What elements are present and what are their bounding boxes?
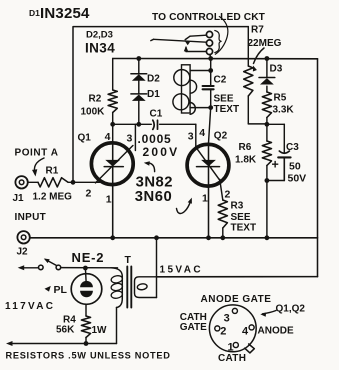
svg-text:+: + xyxy=(272,158,279,172)
arrow Q1,Q2 to pin diagram xyxy=(260,311,276,317)
wire relay common to node xyxy=(209,54,212,58)
resistor R7 wire xyxy=(247,27,249,124)
svg-text:15VAC: 15VAC xyxy=(160,265,204,276)
svg-text:RESISTORS .5W UNLESS NOTED: RESISTORS .5W UNLESS NOTED xyxy=(6,351,171,361)
transistor Q1 (SCS) body xyxy=(91,143,133,185)
wire C3 branch bottom xyxy=(267,157,284,180)
resistor R3 xyxy=(218,200,227,228)
switch blade xyxy=(44,259,57,266)
svg-text:1.8K: 1.8K xyxy=(235,155,257,166)
wire Q2 pin 3 lead xyxy=(195,124,197,146)
svg-text:3: 3 xyxy=(188,131,194,143)
junction bus / transformer drop xyxy=(154,235,159,240)
wire 117VAC line lead with arrow xyxy=(18,265,39,270)
pin diagram pin 4 label xyxy=(242,325,249,337)
svg-text:TEXT: TEXT xyxy=(231,223,257,234)
svg-text:R5: R5 xyxy=(274,93,287,104)
svg-text:ANODE GATE: ANODE GATE xyxy=(201,294,272,305)
svg-text:2: 2 xyxy=(220,325,226,337)
transistor Q1 cathode bar xyxy=(104,166,123,168)
wire gate coupling line xyxy=(113,123,196,125)
label T xyxy=(125,254,132,266)
junction R5-R6-R7-C3 node xyxy=(265,122,270,127)
label C3 xyxy=(286,142,299,153)
label ANODE xyxy=(258,325,294,336)
junction gate line / D1 branch xyxy=(136,122,141,127)
capacitor C2 xyxy=(203,86,214,89)
svg-text:50: 50 xyxy=(289,161,301,173)
svg-text:Q1: Q1 xyxy=(78,133,92,144)
label TO CONTROLLED CKT xyxy=(152,12,266,23)
transistor Q2 anode-cathode axis xyxy=(208,143,210,238)
label R4 value 1W xyxy=(92,325,108,336)
svg-text:Q1,Q2: Q1,Q2 xyxy=(276,304,306,315)
wire R1 to Q1 pin 2 xyxy=(68,181,100,183)
label R7 22MEG xyxy=(248,25,282,50)
svg-text:1W: 1W xyxy=(92,325,108,336)
svg-text:1: 1 xyxy=(228,342,234,354)
wire top border rail xyxy=(73,27,248,183)
resistor R6 xyxy=(262,141,271,166)
label J2 xyxy=(17,247,29,258)
label C3 polarity + xyxy=(272,158,279,172)
pin diagram index tab xyxy=(245,344,255,353)
transformer T primary exit xyxy=(117,299,123,308)
leader curve from TO CONTROLLED CKT xyxy=(215,17,228,55)
svg-text:INPUT: INPUT xyxy=(15,212,47,223)
wire relay top lead with arrow xyxy=(184,35,206,45)
label R4 xyxy=(63,315,76,326)
wire bottom to transformer primary xyxy=(116,308,118,344)
junction bus / Q2 cathode xyxy=(206,235,211,240)
junction gate line / R2-Q1 pin4 xyxy=(110,122,115,127)
svg-text:3: 3 xyxy=(224,313,230,325)
pin diagram pin 1 circle xyxy=(233,342,238,347)
switch terminal right xyxy=(56,265,61,270)
svg-text:ANODE: ANODE xyxy=(258,325,294,336)
resistor R2 xyxy=(108,90,117,113)
pin diagram pin 3 circle xyxy=(232,308,237,313)
svg-text:4: 4 xyxy=(199,127,205,139)
svg-text:Q2: Q2 xyxy=(214,131,228,142)
label Q1 pin 2 xyxy=(86,188,92,200)
switch terminal left xyxy=(39,265,44,270)
label R2 100K xyxy=(81,94,106,118)
label J1 xyxy=(13,193,25,204)
transistor Q1 anode-cathode axis xyxy=(112,142,114,238)
svg-text:50V: 50V xyxy=(288,173,307,185)
label D2 xyxy=(147,74,160,85)
svg-text:IN3254: IN3254 xyxy=(40,5,90,22)
junction C2 column / assembly top xyxy=(208,68,213,73)
svg-text:C3: C3 xyxy=(286,142,299,153)
transformer T core xyxy=(127,267,131,308)
svg-text:PL: PL xyxy=(54,284,68,296)
svg-text:C1: C1 xyxy=(150,109,163,120)
wire 117VAC bottom lead with arrow xyxy=(6,341,117,346)
arrow 3N60 to Q2 xyxy=(177,198,192,214)
capacitor C1 xyxy=(153,120,158,129)
wire C3 branch top xyxy=(267,124,284,152)
label R6 1.8K xyxy=(235,142,257,166)
transformer T primary loop 1 xyxy=(111,275,123,284)
label 3N60 xyxy=(135,189,172,205)
relay contact middle terminal xyxy=(206,40,212,46)
wire main top rail xyxy=(113,58,318,60)
lamp-photocell left lamp 2 xyxy=(173,94,189,110)
label Q1,Q2 xyxy=(276,304,306,315)
svg-text:3N60: 3N60 xyxy=(135,189,172,205)
wire R6 stem xyxy=(266,124,268,180)
diode D2 xyxy=(131,74,147,81)
relay contact top terminal xyxy=(206,31,212,37)
jack J1 xyxy=(15,176,27,188)
transformer T primary entry xyxy=(111,268,122,277)
wire Q1 pin 4 lead xyxy=(112,124,114,142)
pin diagram pin 1 label xyxy=(228,342,234,354)
svg-text:SEE: SEE xyxy=(231,212,251,223)
wire switch to lamp to transformer xyxy=(61,267,118,269)
lamp PL top lead xyxy=(84,268,87,284)
svg-text:3.3K: 3.3K xyxy=(273,105,295,116)
resistor R7 xyxy=(244,66,253,96)
svg-text:R3: R3 xyxy=(231,201,244,212)
relay blade wire xyxy=(151,39,207,42)
diode D3 xyxy=(259,78,275,85)
relay contact bottom terminal xyxy=(206,48,212,54)
svg-text:TEXT: TEXT xyxy=(214,104,240,115)
transistor Q1 triangle xyxy=(105,160,120,167)
arrow 3N82 to Q1 xyxy=(144,161,155,171)
label Q2 pin 3 xyxy=(188,131,194,143)
wire assembly bottom lead xyxy=(190,107,211,109)
label Q1 pin 4 xyxy=(105,131,111,143)
wire J1 to R1 xyxy=(28,181,38,183)
wire anode node to bus xyxy=(266,181,268,238)
relay contacts brace xyxy=(215,31,221,53)
lamp-photocell right bump 2 xyxy=(190,102,195,114)
label Q2 pin 2 xyxy=(225,189,231,201)
svg-text:200V: 200V xyxy=(143,145,180,159)
svg-text:2: 2 xyxy=(86,188,92,200)
junction point A node xyxy=(71,180,76,185)
wire D2-D1 branch xyxy=(138,59,140,125)
diode D1 xyxy=(131,94,147,101)
svg-text:POINT A: POINT A xyxy=(15,148,59,159)
label R5 3.3K xyxy=(273,93,295,116)
wire R2 stem xyxy=(112,59,114,125)
svg-text:1: 1 xyxy=(106,194,112,206)
junction lamp top xyxy=(83,266,88,271)
label PL xyxy=(54,284,68,296)
junction R6-C3 bottom node xyxy=(265,178,270,183)
wire R7 bottom to node xyxy=(248,123,267,125)
label C2 SEE TEXT xyxy=(214,75,240,116)
label 3N82 xyxy=(136,175,173,191)
label D2,D3 IN34 xyxy=(85,30,115,56)
label 15VAC xyxy=(160,265,204,276)
transformer T primary loop 2 xyxy=(111,283,123,292)
wire R4 bottom xyxy=(85,338,87,344)
label Q2 xyxy=(214,131,228,142)
wire C2 column lower xyxy=(210,89,212,107)
svg-text:D1: D1 xyxy=(147,89,160,100)
junction main rail / D3-R5 branch xyxy=(265,56,270,61)
label 117VAC xyxy=(5,301,55,312)
wire assembly top lead xyxy=(190,70,211,72)
label C3 value 50 50V xyxy=(288,161,307,185)
label INPUT xyxy=(15,212,47,223)
svg-text:1.2 MEG: 1.2 MEG xyxy=(33,192,73,203)
label RESISTORS .5W UNLESS NOTED xyxy=(6,351,171,361)
label R1 value 1.2 MEG xyxy=(33,192,73,203)
lamp-photocell assembly enclosure xyxy=(182,65,191,113)
svg-text:C2: C2 xyxy=(214,75,227,86)
svg-text:R6: R6 xyxy=(239,142,252,153)
svg-text:117VAC: 117VAC xyxy=(5,301,55,312)
capacitor C3 curved plate xyxy=(279,151,289,153)
resistor R5 xyxy=(262,92,271,118)
label Q1 pin 1 xyxy=(106,194,112,206)
capacitor C3 straight plate xyxy=(278,156,290,158)
label R1 xyxy=(46,166,59,177)
label Q1 pin 3 xyxy=(127,133,133,145)
junction R4 / bottom wire xyxy=(84,341,89,346)
junction bus / R3 xyxy=(220,235,225,240)
transformer T primary spine xyxy=(121,276,123,299)
label C1 value .0005 200V xyxy=(138,132,180,159)
svg-text:4: 4 xyxy=(105,131,111,143)
lamp-photocell right bump 1 xyxy=(190,80,197,93)
label D3 xyxy=(270,64,283,75)
transistor Q1 gate diagonal xyxy=(96,146,133,183)
svg-text:CATH: CATH xyxy=(218,353,246,364)
arrow POINT A to node xyxy=(32,158,44,177)
svg-text:J1: J1 xyxy=(13,193,25,204)
svg-text:T: T xyxy=(125,254,132,266)
svg-text:SEE: SEE xyxy=(214,94,234,105)
label NE-2 xyxy=(72,250,105,265)
wire 15VAC line xyxy=(157,276,318,278)
jack J2 xyxy=(17,231,29,243)
label C1 xyxy=(150,109,163,120)
label ANODE GATE xyxy=(201,294,272,305)
svg-text:4: 4 xyxy=(242,325,249,337)
label CATH bottom xyxy=(218,353,246,364)
arrow pointing to R7 xyxy=(253,48,264,72)
svg-text:2: 2 xyxy=(225,189,231,201)
junction bus / anode branch xyxy=(265,235,270,240)
transistor Q2 (SCS) body xyxy=(187,144,229,186)
label R3 SEE TEXT xyxy=(231,201,257,234)
junction main rail / D2-D1 branch xyxy=(136,56,141,61)
wire Q2 pin 4 lead xyxy=(209,108,211,143)
svg-text:IN34: IN34 xyxy=(85,41,115,56)
lamp PL lower electrode xyxy=(80,291,93,297)
transistor Q2 triangle xyxy=(201,160,216,167)
pin diagram case outline xyxy=(209,305,256,352)
svg-text:D2,D3: D2,D3 xyxy=(86,30,113,41)
svg-text:NE-2: NE-2 xyxy=(72,250,105,265)
label D1 xyxy=(147,89,160,100)
svg-text:GATE: GATE xyxy=(180,322,207,333)
lamp-photocell left lamp 1 xyxy=(174,70,190,86)
svg-text:R7: R7 xyxy=(251,25,264,36)
pin diagram pin 2 label xyxy=(220,325,226,337)
label CATH GATE xyxy=(180,312,207,333)
label Q2 pin 1 xyxy=(202,193,208,205)
wire transformer secondary to bus xyxy=(156,238,158,298)
lamp PL (NE-2) envelope xyxy=(71,274,102,305)
wire Q2 pin 2 lead xyxy=(220,179,223,200)
label POINT A xyxy=(15,148,59,159)
wire right rail 15VAC xyxy=(317,59,319,277)
svg-text:R1: R1 xyxy=(46,166,59,177)
label Q1 xyxy=(78,133,92,144)
svg-text:J2: J2 xyxy=(17,247,29,258)
junction C2 column / assembly bottom xyxy=(208,105,213,110)
label Q2 pin 4 xyxy=(199,127,205,139)
svg-text:1: 1 xyxy=(202,193,208,205)
transistor Q2 gate diagonal xyxy=(196,147,221,181)
svg-text:56K: 56K xyxy=(56,325,75,336)
svg-text:D3: D3 xyxy=(270,64,283,75)
resistor R4 xyxy=(81,316,90,338)
svg-text:22MEG: 22MEG xyxy=(248,38,282,49)
wire D3-R5 branch xyxy=(266,59,268,125)
label D1 IN3254 xyxy=(29,5,90,22)
wire cathode bus xyxy=(30,237,318,239)
pin diagram pin 4 circle xyxy=(249,325,254,330)
transformer T primary loop 3 xyxy=(111,290,123,299)
wire lamp to R4 xyxy=(85,304,87,316)
svg-text:TO CONTROLLED CKT: TO CONTROLLED CKT xyxy=(152,12,266,23)
transistor Q2 cathode bar xyxy=(197,166,220,168)
label PL pointer xyxy=(45,286,51,292)
svg-text:100K: 100K xyxy=(81,107,106,118)
wire R3 bottom xyxy=(222,228,224,238)
junction main rail / relay-C2 xyxy=(208,56,213,61)
label R4 value 56K xyxy=(56,325,75,336)
svg-text:D2: D2 xyxy=(147,74,160,85)
svg-text:.0005: .0005 xyxy=(138,132,172,146)
wire C2 column upper xyxy=(210,59,212,86)
junction bus / Q1 cathode xyxy=(110,235,115,240)
pin diagram pin 2 circle xyxy=(215,326,220,331)
resistor R1 xyxy=(38,178,68,187)
svg-text:3: 3 xyxy=(127,133,133,145)
transformer T secondary loop xyxy=(135,277,157,298)
lamp PL upper electrode xyxy=(80,281,93,287)
pin diagram pin 3 label xyxy=(224,313,230,325)
svg-text:R2: R2 xyxy=(89,94,102,105)
wire relay bottom lead with arrow xyxy=(184,46,207,52)
svg-text:D1: D1 xyxy=(29,8,40,18)
wire Q1 pin 3 lead xyxy=(134,124,136,150)
